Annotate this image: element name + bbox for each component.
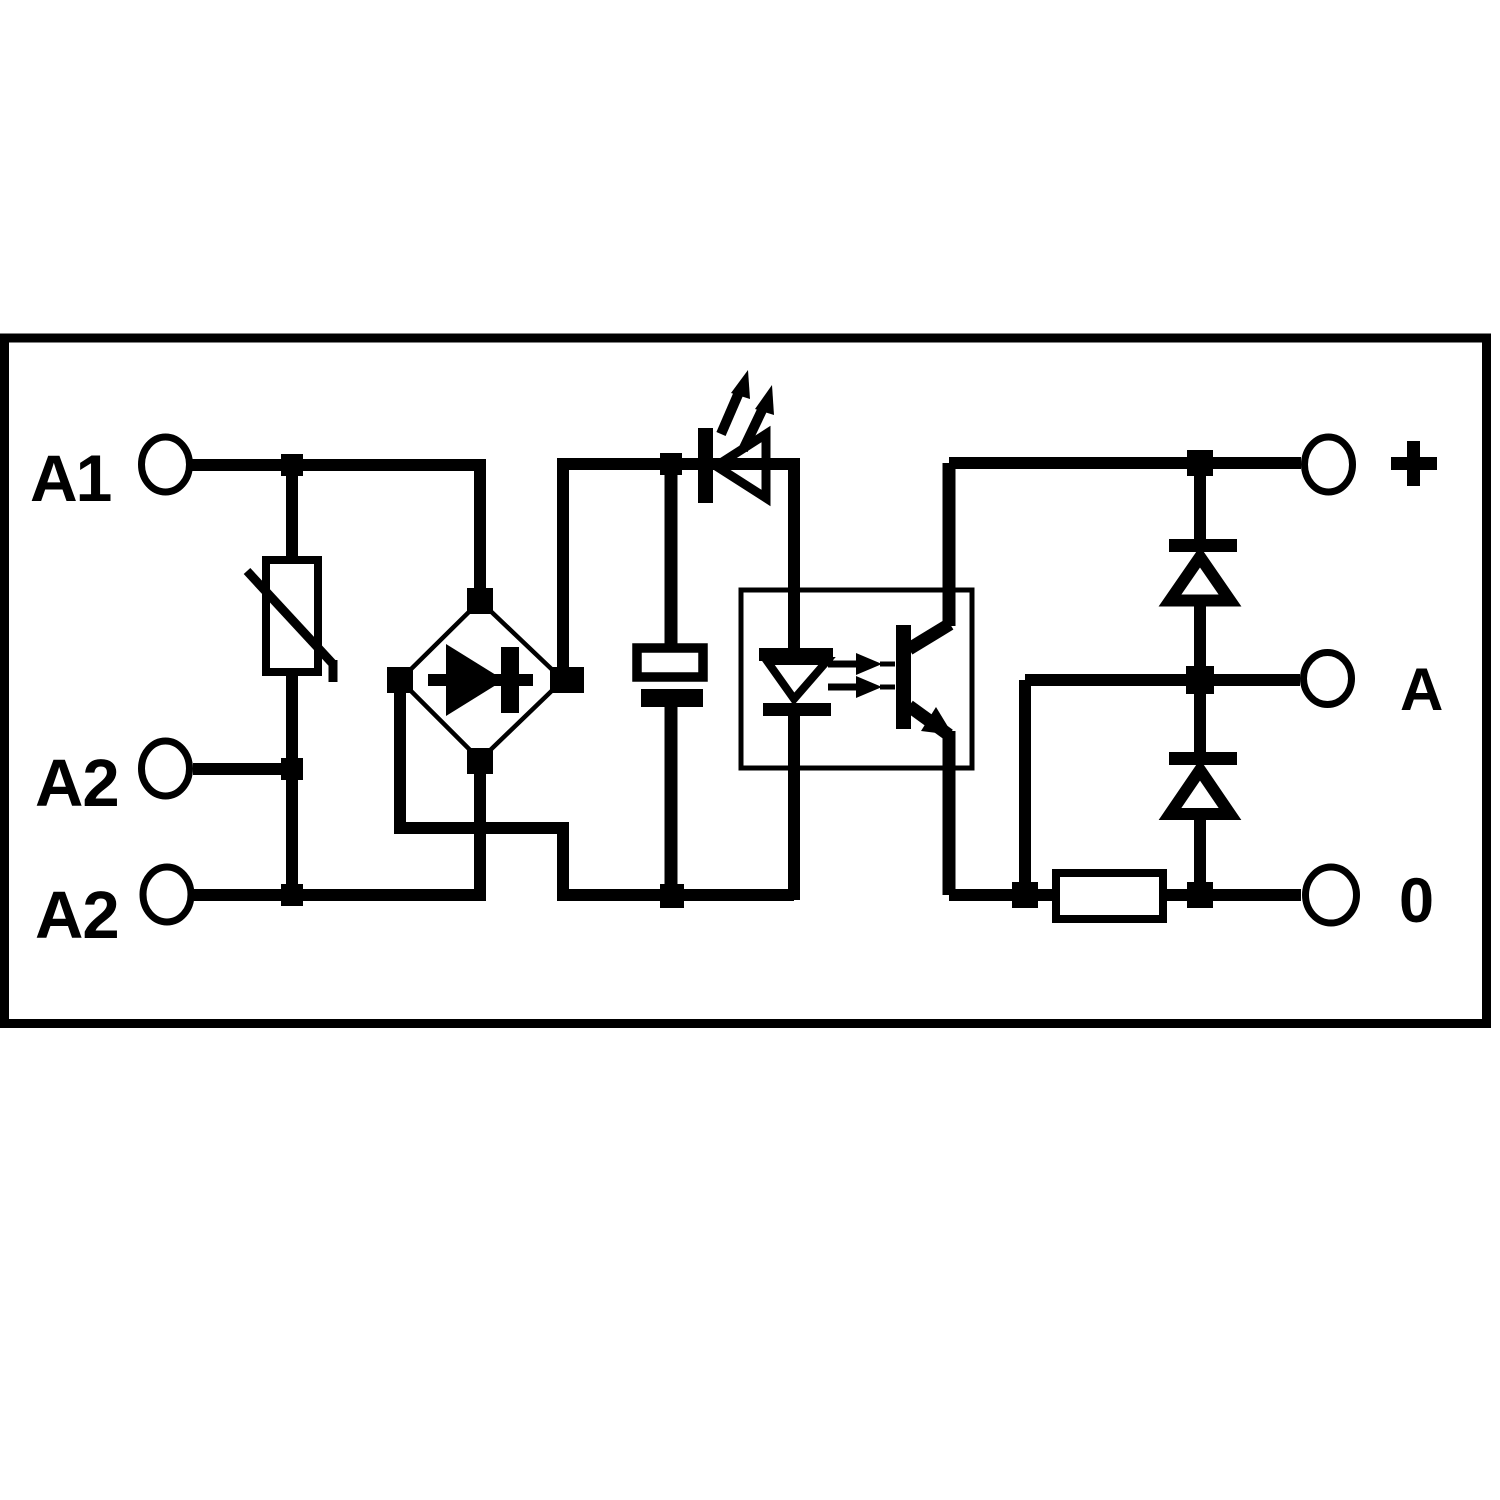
terminal A2 (upper) bbox=[142, 741, 190, 796]
wire A2 upper to branch bbox=[193, 763, 292, 775]
light arrow 2 bbox=[828, 684, 858, 691]
node A/diode chain junction bbox=[1186, 666, 1214, 694]
wire D2 lower lead bbox=[1194, 815, 1206, 895]
diode D2 bbox=[1169, 752, 1237, 765]
node A1/varistor junction bbox=[281, 454, 303, 476]
wire bridge right vertex up to DC+ rail and LED bbox=[563, 464, 794, 686]
phototransistor emitter with arrow bbox=[909, 706, 949, 735]
terminal A2 (lower) bbox=[143, 867, 191, 922]
phototransistor Q1 base bar bbox=[896, 625, 911, 729]
wire D1 upper lead bbox=[1194, 463, 1206, 540]
node A2b junction bbox=[281, 884, 303, 906]
opto LED cathode bar bbox=[763, 703, 831, 716]
resistor R1 bbox=[1056, 873, 1163, 919]
node bridge left vertex bbox=[387, 667, 413, 693]
node D2/resistor/0 junction bbox=[1187, 882, 1213, 908]
wire DC- path: bridge left vertex to bottom rail bbox=[400, 686, 794, 895]
LED arrow 1 bbox=[721, 390, 740, 434]
bridge rectifier B1 diamond bbox=[400, 601, 563, 760]
wire A2 lower rail to bridge bottom bbox=[194, 762, 480, 895]
svg-text:0: 0 bbox=[1399, 866, 1434, 936]
terminal + bbox=[1305, 437, 1353, 492]
node capacitor top junction bbox=[660, 453, 682, 475]
diode D1 bbox=[1169, 539, 1237, 552]
label + bbox=[1391, 457, 1437, 470]
opto LED anode bar bbox=[759, 648, 833, 661]
node output rail / A-drop junction bbox=[1012, 882, 1038, 908]
wire A1 rail to bridge top bbox=[192, 465, 480, 601]
capacitor C1 bottom plate bbox=[641, 689, 703, 707]
bridge internal diode bbox=[428, 674, 533, 686]
wire + rail bbox=[949, 457, 1301, 469]
LED indicator D3 cathode bar bbox=[698, 428, 713, 503]
terminal 0 bbox=[1306, 867, 1357, 923]
svg-text:A1: A1 bbox=[30, 441, 111, 515]
wire capacitor upper lead bbox=[665, 464, 678, 650]
wire varistor branch lower bbox=[286, 672, 298, 895]
node bridge right vertex bbox=[550, 667, 584, 693]
wire D1 to A rail, through to D2 bbox=[1194, 601, 1206, 754]
wire A rail bbox=[1025, 674, 1300, 686]
wire resistor to 0 terminal bbox=[1163, 889, 1301, 901]
node capacitor bottom junction bbox=[660, 884, 684, 908]
wire opto LED cathode lead bbox=[788, 712, 800, 900]
wire varistor branch upper bbox=[286, 465, 298, 562]
node bridge top vertex bbox=[467, 588, 493, 614]
phototransistor collector bbox=[909, 624, 950, 649]
light arrow 1 bbox=[828, 661, 858, 668]
capacitor C1 top plate bbox=[637, 648, 703, 677]
node bridge bottom vertex bbox=[467, 748, 493, 774]
wire capacitor lower lead bbox=[665, 707, 678, 895]
svg-text:A: A bbox=[1400, 656, 1443, 723]
optocoupler U1 box bbox=[741, 590, 972, 768]
terminal A1 bbox=[142, 437, 190, 492]
svg-text:A2: A2 bbox=[35, 746, 119, 821]
node A2a junction bbox=[281, 758, 303, 780]
wire A rail drop to output rail bbox=[1019, 680, 1031, 895]
LED arrow 2 bbox=[743, 406, 764, 450]
wire output bottom rail (emitter to resistor) bbox=[949, 889, 1058, 901]
varistor RV1 bbox=[266, 560, 318, 672]
LED indicator D3 triangle bbox=[716, 434, 766, 498]
border frame bbox=[5, 338, 1487, 1024]
terminal A bbox=[1304, 653, 1352, 705]
node D1 top junction bbox=[1187, 450, 1213, 476]
opto LED triangle bbox=[767, 661, 827, 699]
svg-text:A2: A2 bbox=[35, 878, 119, 953]
